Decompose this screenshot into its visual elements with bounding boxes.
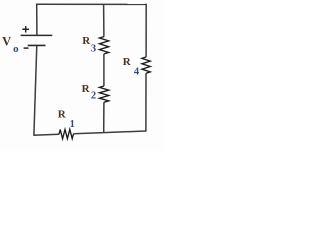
svg-text:R: R [123,56,132,68]
resistor R3 (zigzag, middle branch upper) [99,37,108,54]
wire: middle branch upper lead (top rail down to R3) [103,4,105,36]
svg-text:R: R [82,83,91,95]
svg-text:V: V [2,35,11,49]
wire: middle branch mid lead (R3 to R2) [103,54,105,86]
wire: left branch upper segment (top-left corner down to battery + plate) [36,4,38,35]
battery + polarity mark [22,26,29,32]
resistor R2 (zigzag, middle branch lower) [99,86,108,102]
node D: middle-branch / bottom-rail junction [104,131,146,133]
wire: top rail from node A (top-left) to node C (top-right) [36,3,147,5]
wire: left branch lower segment (battery - plate down to node B bottom-left) [34,45,37,135]
svg-text:R: R [82,35,91,47]
wire: bottom rail middle segment (R1 right lead to node D junction) [74,133,104,134]
svg-text:4: 4 [134,66,140,77]
svg-text:1: 1 [70,119,75,130]
battery V_o bottom plate (- terminal) [28,44,46,46]
svg-text:o: o [13,43,19,55]
resistor R4 (zigzag, right branch) [142,57,150,73]
svg-text:3: 3 [91,43,96,54]
svg-text:2: 2 [91,91,96,102]
battery - polarity mark [24,47,29,49]
wire: right branch lower lead (R4 down to bottom-right corner) [145,73,147,131]
wire: right branch upper lead (node C down to R4) [145,4,147,57]
svg-text:R: R [58,108,67,120]
wire: middle branch lower lead (R2 down to node D) [103,102,105,133]
resistor R1 (zigzag on bottom rail) [59,129,74,138]
wire: bottom rail left segment (node B to resistor R1 left lead) [33,133,59,136]
battery V_o top plate (+ terminal) [21,34,53,36]
